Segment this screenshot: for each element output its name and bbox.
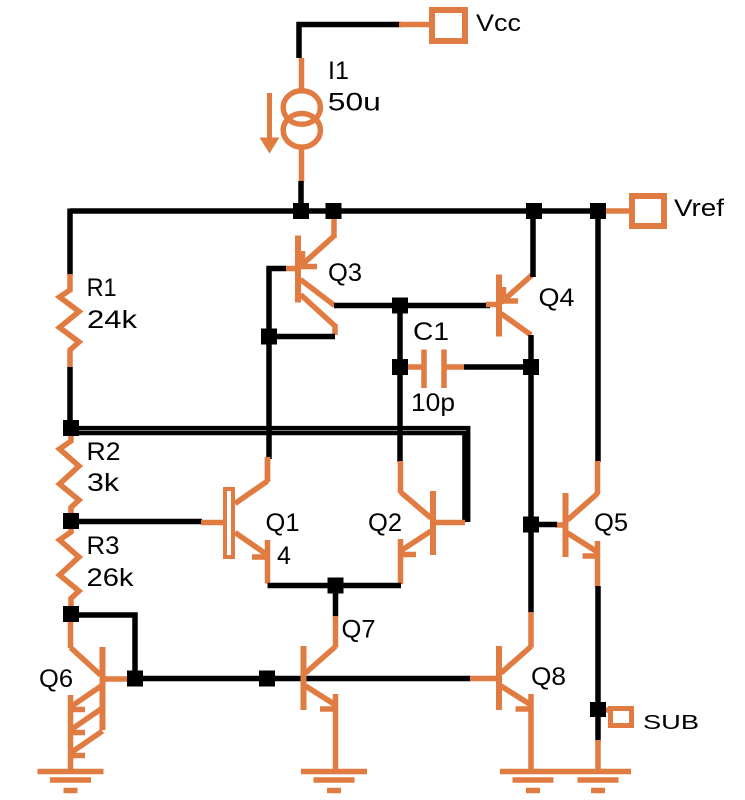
junction node F emitter bus Q7 collector [328, 578, 344, 594]
label Q7 [342, 616, 376, 644]
label C1 value 10p [411, 318, 455, 417]
label R2 value 3k [87, 438, 121, 497]
wire node C to Q6 base [71, 615, 135, 679]
svg-text:Q8: Q8 [531, 663, 566, 691]
wire Q5 emitter ground lead [595, 740, 601, 770]
wire Q1 collector upper (orange lead) [265, 457, 271, 481]
wire node A to Q2 base (lower duplicate) [71, 433, 464, 522]
svg-text:C1: C1 [413, 318, 449, 346]
transistor Q3 (dual-collector PNP) [285, 214, 335, 335]
capacitor C1 [403, 350, 466, 389]
svg-text:3k: 3k [87, 469, 120, 497]
junction node A R1 R2 [63, 420, 79, 436]
svg-text:4: 4 [277, 542, 291, 570]
label Q1 multiplier 4 [266, 509, 300, 570]
wire node B to Q1 base [71, 519, 202, 525]
transistor Q5 (NPN) [556, 461, 598, 587]
junction node E C1 right Q4 collector [523, 359, 539, 375]
label SUB [643, 711, 699, 734]
svg-text:R1: R1 [87, 274, 117, 302]
svg-text:Q7: Q7 [342, 616, 376, 644]
junction node C R3 Q6 collector [63, 606, 79, 622]
label R1 value 24k [87, 274, 138, 334]
wire Q3 collector1 to Q4 base [334, 303, 490, 309]
resistor R2 [60, 436, 80, 516]
wire node D down to Q2 collector [397, 306, 403, 463]
wire Q4 emitter to top rail [530, 211, 536, 277]
svg-text:Q6: Q6 [39, 665, 73, 693]
svg-text:Vref: Vref [674, 195, 724, 222]
transistor Q1 (NPN m=4) [201, 457, 268, 584]
transistor Q6 (NPN multi-emitter, mirrored) [71, 620, 133, 770]
svg-text:10p: 10p [411, 389, 455, 417]
transistor Q2 (NPN mirrored) [401, 461, 466, 584]
resistor R3 [60, 527, 80, 607]
ground Q6 emitter [38, 772, 104, 791]
ground Q7 emitter [301, 772, 367, 791]
wire Q3 base node down to Q1 collector [266, 337, 272, 460]
svg-text:I1: I1 [328, 57, 349, 85]
transistor Q7 (NPN) [304, 616, 336, 770]
junction node Vref rail port [590, 203, 606, 219]
wire Q4 collector down to Q8 collector [528, 335, 534, 613]
wire left branch down to R1 [67, 209, 73, 276]
svg-text:SUB: SUB [643, 711, 699, 734]
svg-text:50u: 50u [328, 89, 381, 117]
junction node SUB [590, 702, 606, 717]
wire Q5 emitter down to SUB net [595, 586, 601, 741]
svg-text:Vcc: Vcc [476, 10, 521, 37]
resistor R1 [60, 274, 80, 367]
port Vref [597, 196, 664, 226]
label Q5 [594, 509, 628, 537]
wire I1 to top rail [298, 181, 304, 213]
wire base bus Q6 Q7 Q8 [132, 676, 471, 682]
ground Q8 emitter [500, 772, 566, 791]
transistor Q4 (PNP) [486, 275, 532, 337]
ground right (SUB net) [565, 772, 631, 791]
wire emitter bus Q1 Q2 [268, 583, 402, 589]
junction node Q5 base [523, 517, 539, 533]
wire Q3 base loop [269, 269, 335, 337]
label R3 value 26k [87, 532, 135, 592]
junction node Vref rail Q3 emitter [326, 203, 342, 219]
svg-text:Q3: Q3 [328, 259, 362, 287]
wire top rail Vref net [70, 208, 598, 214]
wire Q5 base to Q4 collector net [531, 522, 557, 528]
junction node D C1 left plate [392, 359, 408, 375]
wire C1 right plate to Q4 collector net [464, 364, 531, 370]
wire Vref port down to Q5 collector [595, 211, 601, 462]
wire node A to Q2 base (upper) [71, 428, 468, 522]
port SUB [599, 709, 632, 726]
current source I1 [260, 58, 321, 182]
label Q3 [328, 259, 362, 287]
svg-text:24k: 24k [87, 306, 138, 334]
label Q6 [39, 665, 73, 693]
transistor Q8 (NPN) [470, 612, 531, 770]
svg-text:Q2: Q2 [368, 509, 402, 537]
junction node B R2 R3 Q1 base [63, 513, 79, 529]
label Vref [674, 195, 724, 222]
junction node D Q4 base Q2 collector [392, 298, 408, 314]
junction node Vref rail Q4 emitter [526, 203, 542, 219]
svg-text:R3: R3 [87, 532, 120, 560]
label Q2 [368, 509, 402, 537]
wire node F down to Q7 collector [333, 586, 339, 618]
svg-text:Q5: Q5 [594, 509, 628, 537]
junction node base bus left corner [127, 671, 143, 687]
junction node Vref rail I1 [293, 203, 309, 219]
port Vcc [399, 10, 465, 41]
svg-text:Q4: Q4 [539, 284, 575, 312]
svg-text:26k: 26k [87, 564, 135, 592]
label Vcc [476, 10, 521, 37]
label I1 value 50u [328, 57, 381, 117]
label Q4 [539, 284, 575, 312]
wire Vcc net top [299, 25, 401, 59]
svg-text:Q1: Q1 [266, 509, 300, 537]
svg-text:R2: R2 [87, 438, 121, 466]
junction node base bus mid [259, 671, 275, 687]
label Q8 [531, 663, 566, 691]
junction node Q3 base collector2 [261, 329, 277, 345]
wire R1 bottom to node A [67, 367, 73, 430]
